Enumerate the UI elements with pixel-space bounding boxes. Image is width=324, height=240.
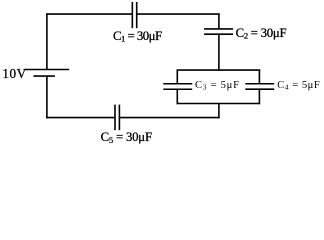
svg-text:10V: 10V	[2, 66, 26, 81]
svg-text:C3 = 5μF: C3 = 5μF	[195, 80, 240, 92]
svg-text:C5 = 30μF: C5 = 30μF	[101, 130, 152, 145]
svg-text:C2 = 30μF: C2 = 30μF	[236, 26, 287, 41]
svg-text:C1 = 30μF: C1 = 30μF	[113, 29, 162, 44]
svg-text:C4 = 5μF: C4 = 5μF	[277, 80, 320, 92]
